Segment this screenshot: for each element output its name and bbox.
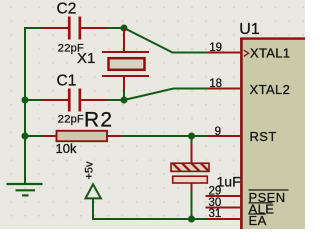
wire C1 to junction: [107, 99, 124, 101]
ground: [7, 184, 43, 195]
wire capacitor to +5v rail: [191, 191, 193, 219]
svg-text:RST: RST: [250, 129, 277, 144]
svg-text:C2: C2: [57, 1, 77, 18]
wire diagonal to XTAL1: [124, 28, 207, 53]
junction node R2 on rail: [22, 133, 29, 140]
IC U1 body: [240, 39, 305, 230]
wire left rail: [24, 27, 26, 184]
pin name ALE with overbar: [249, 202, 275, 217]
wire diagonal to XTAL2: [124, 89, 207, 101]
svg-text:X1: X1: [77, 50, 95, 67]
wire R2 to RST: [122, 135, 207, 137]
svg-text:9: 9: [215, 126, 221, 138]
pin 19 lead: [206, 52, 243, 54]
svg-text:31: 31: [209, 208, 222, 220]
wire RST junction down to capacitor: [191, 136, 193, 143]
svg-text:XTAL1: XTAL1: [250, 46, 290, 61]
crystal X1: [102, 28, 149, 92]
junction node at crystal bottom: [121, 97, 128, 104]
pin 30 lead: [206, 207, 243, 209]
resistor R2: [43, 131, 122, 141]
pin 29 lead: [206, 195, 243, 197]
pin name EA with overbar: [249, 213, 267, 228]
capacitor C1: [42, 89, 107, 112]
wire C1 left: [25, 99, 42, 101]
pin 18 lead: [206, 88, 243, 90]
pin 31 lead: [206, 218, 243, 220]
svg-text:10k: 10k: [56, 141, 77, 156]
pin name PSEN with overbar: [249, 190, 289, 205]
svg-text:U1: U1: [239, 21, 260, 38]
svg-text:19: 19: [209, 42, 222, 54]
svg-text:XTAL2: XTAL2: [250, 82, 291, 97]
svg-text:R2: R2: [84, 109, 113, 132]
svg-text:18: 18: [209, 78, 222, 90]
junction node RST: [188, 133, 195, 140]
pin 9 lead: [206, 135, 243, 137]
wire R2 left: [25, 135, 43, 137]
junction node at crystal top: [121, 25, 128, 32]
svg-text:22pF: 22pF: [58, 114, 84, 126]
wire crystal bottom to junction: [123, 90, 125, 100]
wire C2 left: [24, 27, 42, 29]
capacitor C3 1uF electrolytic: [171, 143, 209, 191]
svg-text:C1: C1: [57, 73, 77, 90]
wire C2 to junction: [107, 27, 124, 29]
power +5v symbol: [86, 184, 101, 198]
junction node C1 on rail: [22, 97, 29, 104]
svg-text:EA: EA: [249, 213, 267, 228]
svg-text:1uF: 1uF: [217, 174, 241, 190]
capacitor C2: [42, 17, 107, 40]
clock chevron XTAL1: [244, 50, 249, 56]
wire bottom rail to EA pin: [93, 199, 207, 220]
junction node bottom: [188, 216, 195, 223]
svg-text:+5v: +5v: [83, 161, 95, 180]
